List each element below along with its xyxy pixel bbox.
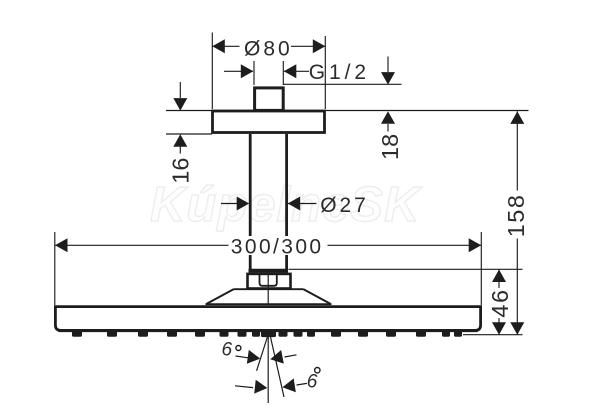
svg-text:300/300: 300/300 xyxy=(231,236,324,259)
svg-text:46: 46 xyxy=(487,288,513,317)
svg-text:6: 6 xyxy=(307,371,318,392)
svg-text:18: 18 xyxy=(377,134,403,160)
svg-text:16: 16 xyxy=(167,158,193,184)
svg-text:Ø80: Ø80 xyxy=(244,38,293,61)
svg-text:G1/2: G1/2 xyxy=(309,61,370,84)
svg-text:Ø27: Ø27 xyxy=(320,194,368,217)
svg-text:158: 158 xyxy=(503,194,529,238)
svg-text:6: 6 xyxy=(222,340,233,361)
